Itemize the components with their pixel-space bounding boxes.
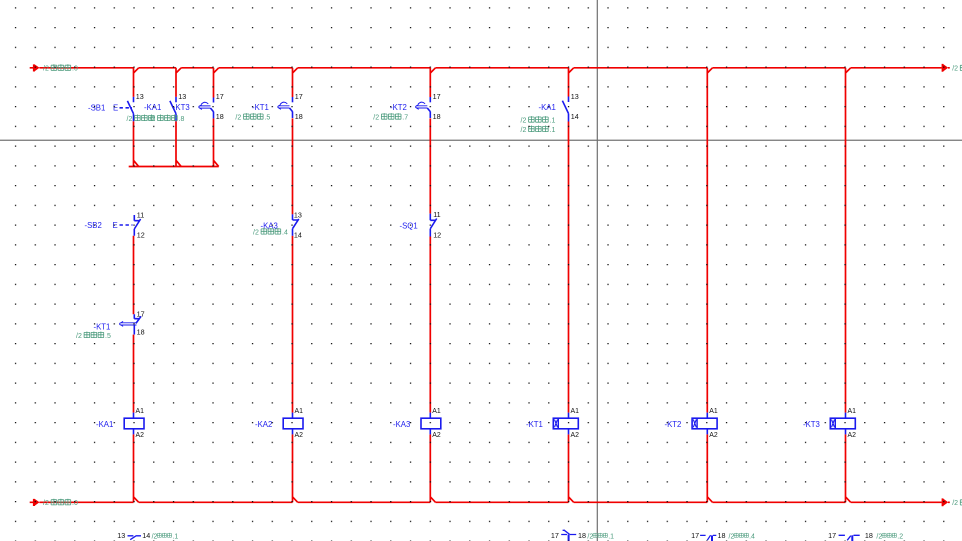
node top-right interruption arrow bbox=[942, 64, 949, 72]
frame divider horizontal bbox=[0, 139, 962, 141]
wire column3 vertical bbox=[430, 68, 435, 503]
timer coil KT2 bbox=[692, 413, 717, 435]
wire column5 vertical bbox=[707, 68, 712, 503]
KT3 cross-reference bbox=[150, 115, 185, 123]
contact KA3 (NO 13-14, column2) bbox=[293, 214, 299, 235]
wire column1 branch b vertical (KA1 contact) bbox=[176, 68, 181, 167]
node top-left interruption arrow bbox=[33, 64, 40, 71]
pushbutton SB1 (NO contact 13) bbox=[127, 97, 133, 121]
wire column1 branch c vertical (KT3 contact) bbox=[214, 68, 219, 167]
KA1 cross-reference line2 bbox=[521, 126, 556, 134]
relay coil KA2 bbox=[283, 413, 303, 435]
KT1 top cross-reference bbox=[235, 113, 270, 121]
wire column1 lower vertical bbox=[134, 236, 139, 503]
wire column4 vertical bbox=[569, 68, 574, 503]
wire top power rail bbox=[30, 67, 950, 69]
timed contact KT1 (column1, 17-18) bbox=[120, 314, 141, 334]
wire column1 merge bar bbox=[129, 166, 219, 168]
contact KA1 (NO, column1 branch b) bbox=[170, 97, 176, 121]
KA1 contact cross-reference bbox=[127, 115, 155, 123]
timed contact KT1 (column2 top, 17-18) bbox=[278, 97, 293, 118]
timed contact KT3 (column1 branch c) bbox=[199, 98, 214, 119]
node bottom-right interruption arrow bbox=[942, 498, 949, 506]
wire column2 vertical bbox=[293, 68, 298, 503]
limit switch SQ1 (NC contact 11-12) bbox=[430, 214, 436, 237]
SB2 actuator E dashed link bbox=[120, 224, 133, 226]
KA3 contact cross-reference bbox=[253, 228, 288, 236]
frame divider vertical bbox=[596, 0, 598, 541]
pushbutton SB2 (NC contact 11-12) bbox=[134, 215, 140, 236]
KA1 cross-reference line1 bbox=[521, 116, 556, 124]
top-right rail reference text bbox=[952, 64, 962, 72]
wire column1 branch a vertical (SB1) bbox=[134, 68, 139, 167]
KT2 cross-reference bbox=[373, 113, 408, 121]
relay coil KA1 bbox=[124, 413, 144, 435]
bottom-left rail reference text /2控制图.0 bbox=[43, 499, 78, 507]
timer coil KT1 bbox=[553, 413, 578, 435]
bottom-right rail reference text bbox=[952, 499, 962, 507]
wire bottom power rail bbox=[30, 501, 950, 503]
top-left rail reference text /2控制图.0 bbox=[43, 64, 78, 72]
wire column6 vertical bbox=[846, 68, 851, 503]
KT1 contact cross-reference bbox=[76, 332, 111, 340]
timed contact KT2 (column3 top, 17-18) bbox=[416, 97, 431, 118]
contact KA1 (NO 13-14, column4) bbox=[562, 97, 568, 122]
SB1 actuator E dashed link bbox=[120, 107, 133, 109]
node bottom-left interruption arrow bbox=[33, 499, 40, 506]
relay coil KA3 bbox=[421, 413, 441, 435]
timer coil KT3 bbox=[830, 413, 855, 435]
